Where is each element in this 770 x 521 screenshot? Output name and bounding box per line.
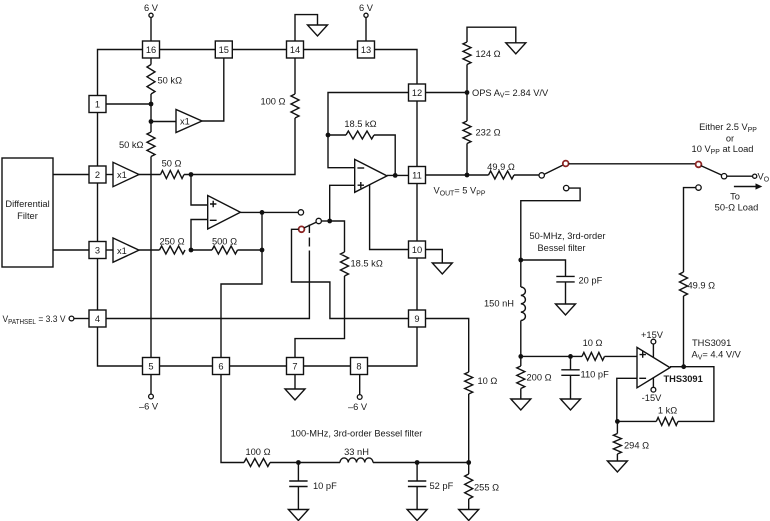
label THS3091 (inside) <box>664 374 703 384</box>
svg-text:VOUT= 5 VPP: VOUT= 5 VPP <box>434 186 486 198</box>
resistor 100 Ohm (filter) <box>244 459 270 467</box>
wire pin3 to pin2 <box>97 183 99 242</box>
wire pin4 to pin3 <box>97 259 99 311</box>
wire pin12 to divider node <box>426 92 468 94</box>
resistor 10 Ohm (50MHz) <box>582 352 605 360</box>
wire 50k to node chain down to pin 5 <box>150 94 152 358</box>
svg-text:1: 1 <box>95 99 100 109</box>
wire buffer2 output to 50 ohm <box>139 174 161 176</box>
label x1 (bottom buffer) <box>117 246 127 256</box>
pin 15 box <box>215 41 232 58</box>
junction 18.5k feedback node <box>326 133 331 138</box>
wire 124 ohm to ground <box>467 27 516 43</box>
junction filter node 1 <box>296 460 301 465</box>
resistor 294 Ohm <box>613 421 621 461</box>
label 1 kOhm <box>658 406 677 416</box>
wire ring top-left corner to pin 1 <box>98 50 143 96</box>
label OPS gain <box>472 88 549 100</box>
label VO <box>758 172 770 184</box>
svg-text:Differential: Differential <box>5 199 49 209</box>
op-amp buffer x1 (top) <box>176 110 202 133</box>
label To <box>730 192 740 202</box>
svg-text:100 Ω: 100 Ω <box>245 447 270 457</box>
wire pin7 to ground <box>294 375 296 390</box>
terminal VO <box>753 174 757 178</box>
wire 52pF to ground <box>416 487 418 510</box>
wire opamp2 output to pin 11 <box>387 174 409 176</box>
wire pin2 to buffer2 <box>106 174 113 176</box>
resistor 49.9 Ohm (series) <box>489 171 515 179</box>
svg-text:VO: VO <box>758 172 770 184</box>
junction feedback node <box>615 419 620 424</box>
pin 16 box <box>143 41 160 58</box>
label Either line2 <box>726 134 734 144</box>
wire 110pF to ground <box>570 375 572 399</box>
svg-text:18.5 kΩ: 18.5 kΩ <box>344 119 376 129</box>
label -6 V (pin5) <box>139 402 159 412</box>
label 250 Ohm <box>159 237 184 247</box>
wire node A to 20pF <box>521 260 566 276</box>
wire filter to pin 2 <box>53 174 89 176</box>
wire pin3 to buffer3 <box>106 249 113 251</box>
wire node to buffer1 input <box>151 121 176 123</box>
pin 9 box <box>409 310 426 327</box>
label THS3091 (title) <box>692 338 731 348</box>
switch S2 pole <box>539 173 544 178</box>
wire 50ohm node to 100ohm/pin14 <box>184 58 295 175</box>
junction VOUT node <box>465 173 470 178</box>
label -15V <box>642 393 662 403</box>
op-amp buffer x1 (middle) <box>113 162 139 186</box>
wire node B to node C <box>521 355 582 357</box>
resistor 255 Ohm <box>465 463 473 510</box>
wire 6V supply to pin 16 <box>150 18 152 42</box>
wire 18.5k to opamp2 output <box>374 135 395 175</box>
svg-text:THS3091: THS3091 <box>692 338 731 348</box>
resistor 500 Ohm <box>212 246 238 254</box>
svg-text:Filter: Filter <box>17 211 38 221</box>
svg-text:200 Ω: 200 Ω <box>527 373 552 383</box>
svg-text:To: To <box>730 192 740 202</box>
wire node to opamp1 - input <box>191 220 208 251</box>
terminal 6V (right) <box>364 13 368 17</box>
svg-text:9: 9 <box>414 314 419 324</box>
op-amp THS3091 <box>637 347 670 387</box>
switch S3 pole <box>721 174 726 179</box>
wire 10 ohm to THS + input <box>605 355 638 357</box>
resistor 100 Ohm (pin14) <box>291 94 299 118</box>
resistor 1 kOhm <box>656 417 678 425</box>
label +15V <box>641 330 664 340</box>
svg-text:Either 2.5 VPP: Either 2.5 VPP <box>699 122 757 134</box>
wire pin14 to pin13 <box>304 49 358 51</box>
wire node to opamp1 + input <box>191 175 208 206</box>
svg-text:–6 V: –6 V <box>348 402 368 412</box>
pin 6 box <box>213 358 230 375</box>
svg-text:15: 15 <box>219 45 229 55</box>
svg-text:12: 12 <box>412 88 422 98</box>
pin 4 box <box>89 310 106 327</box>
wire node to 500 ohm <box>191 249 212 251</box>
wire pin9 to pin8 corner <box>368 327 418 366</box>
svg-text:16: 16 <box>146 45 156 55</box>
svg-text:7: 7 <box>292 361 297 371</box>
wire S1 common to node <box>322 220 330 222</box>
svg-text:x1: x1 <box>180 117 190 127</box>
wire pin5 to -6V <box>150 375 152 395</box>
wire pin10 to pin9 <box>416 258 418 310</box>
terminal V_PATHSEL <box>69 316 74 321</box>
label 110 pF <box>581 370 610 380</box>
wire pin8 to pin7 <box>304 365 351 367</box>
svg-text:or: or <box>726 134 734 144</box>
switch S3 throw A (selected) <box>696 162 702 168</box>
resistor 18.5 kOhm (vertical) <box>341 252 349 276</box>
label 49.9 Ohm (series) <box>487 162 515 172</box>
op-amp U2 (OPS) <box>355 159 387 192</box>
wire pin12 to 18.5k node and - input <box>328 93 409 168</box>
inductor 33 nH <box>340 458 373 463</box>
wire pin14 to top ground <box>295 15 318 41</box>
wire S1 node to opamp2 + input <box>330 185 355 221</box>
label Either line1 <box>699 122 757 134</box>
label 200 Ohm <box>527 373 552 383</box>
svg-text:50 kΩ: 50 kΩ <box>119 140 144 150</box>
label 50 kOhm (lower) <box>119 140 144 150</box>
ground (294 Ohm) <box>607 461 627 472</box>
wire S1 throw B to pin 9 <box>292 229 409 318</box>
wire node C to 110pF <box>570 356 572 369</box>
pin 8 box <box>351 358 368 375</box>
svg-text:2: 2 <box>95 170 100 180</box>
svg-text:10 pF: 10 pF <box>313 481 337 491</box>
switch S1 common <box>316 218 321 223</box>
wire pin16 to pin15 <box>160 49 216 51</box>
wire V_PATHSEL to pin 4 <box>74 318 89 320</box>
wire pin13 to pin12 corner <box>375 50 418 85</box>
svg-text:500 Ω: 500 Ω <box>212 237 237 247</box>
wire pin4 row to S1 link <box>106 251 309 319</box>
svg-text:–6 V: –6 V <box>139 402 159 412</box>
junction 50ohm output node <box>189 172 194 177</box>
svg-text:6 V: 6 V <box>359 3 374 13</box>
wire 6V supply to pin 13 <box>365 18 367 42</box>
svg-text:250 Ω: 250 Ω <box>159 237 184 247</box>
label 20 pF <box>579 276 603 286</box>
wire pin7 to pin6 <box>230 365 287 367</box>
switch S1 throw A <box>298 210 303 215</box>
pin 3 box <box>89 242 106 259</box>
wire 18.5k to pin 7 <box>295 276 345 358</box>
wire filter node2 to node3 <box>373 462 469 464</box>
junction S1 common node <box>327 219 332 224</box>
svg-text:50 kΩ: 50 kΩ <box>158 76 183 86</box>
label 18.5 kOhm (feedback) <box>344 119 376 129</box>
resistor 50 kOhm (lower) <box>147 132 155 156</box>
wire S1 node to 18.5k (vertical) <box>330 221 345 252</box>
label THS3091 gain <box>692 350 742 362</box>
wire pin9 to 10 ohm <box>426 319 469 373</box>
label 255 Ohm <box>474 483 499 493</box>
svg-text:OPS AV= 2.84 V/V: OPS AV= 2.84 V/V <box>472 88 549 100</box>
junction pin1/50k node <box>149 102 154 107</box>
switch S3 throw B <box>696 185 701 190</box>
op-amp buffer x1 (bottom) <box>113 238 139 262</box>
svg-text:100-MHz, 3rd-order Bessel filt: 100-MHz, 3rd-order Bessel filter <box>291 429 423 439</box>
svg-text:49.9 Ω: 49.9 Ω <box>688 281 716 291</box>
wire THS output node <box>670 366 684 368</box>
switch S3 blade <box>701 166 721 175</box>
svg-text:10 VPP at Load: 10 VPP at Load <box>692 144 754 156</box>
wire pin12 to pin11 <box>416 101 418 167</box>
switch S2 throw A (selected) <box>563 161 569 167</box>
junction filter node 2 <box>415 460 420 465</box>
wire pin6 to filter input <box>221 375 244 463</box>
wire pin10 to ground <box>426 250 443 264</box>
svg-text:10 Ω: 10 Ω <box>478 376 498 386</box>
svg-text:294 Ω: 294 Ω <box>624 441 649 451</box>
capacitor 52 pF <box>408 481 426 487</box>
terminal -6V (pin8) <box>357 395 362 400</box>
terminal -15V <box>651 387 656 392</box>
svg-text:6: 6 <box>218 361 223 371</box>
svg-text:THS3091: THS3091 <box>664 374 703 384</box>
label 124 Ohm <box>476 49 501 59</box>
junction 50MHz node C <box>568 354 573 359</box>
wire pin11 to VOUT node <box>426 174 489 176</box>
wire S2 throw A to S3 throw A <box>569 163 696 165</box>
label 50MHz filter title line1 <box>530 231 606 241</box>
svg-text:4: 4 <box>95 314 100 324</box>
junction buffer1 input tap <box>149 119 154 124</box>
svg-text:18.5 kΩ: 18.5 kΩ <box>351 259 383 269</box>
wire buffer1 output to pin 15 <box>202 58 224 121</box>
pin 5 box <box>143 358 160 375</box>
wire pin11 to pin10 <box>416 184 418 242</box>
wire 49.9 top to S3 throw B <box>684 188 696 272</box>
label 10 Ohm (vertical) <box>478 376 498 386</box>
wire 500 ohm to feedback node <box>238 249 263 251</box>
wire THS output to 1k <box>678 367 714 422</box>
label 100 Ohm (pin14) <box>260 97 285 107</box>
svg-text:6 V: 6 V <box>144 3 159 13</box>
label V_PATHSEL <box>3 314 67 326</box>
svg-text:232 Ω: 232 Ω <box>476 128 501 138</box>
svg-text:5: 5 <box>148 361 153 371</box>
switch S1 blade <box>304 222 316 228</box>
svg-text:100 Ω: 100 Ω <box>260 97 285 107</box>
resistor 50 Ohm <box>161 171 185 179</box>
label 18.5 kOhm (vertical) <box>351 259 383 269</box>
wire node to 18.5k top <box>328 134 346 136</box>
wire buffer3 output to 250 ohm <box>139 249 160 251</box>
wire node1 to 10pF <box>297 463 299 482</box>
svg-text:33 nH: 33 nH <box>344 447 369 457</box>
label 50MHz filter title line2 <box>537 243 585 253</box>
wire opamp1 output down to pin 6 <box>221 212 262 357</box>
label 49.9 Ohm (vertical) <box>688 281 716 291</box>
terminal -6V (pin5) <box>149 394 154 399</box>
label Either line3 <box>692 144 754 156</box>
junction opamp2 output <box>393 173 398 178</box>
svg-text:255 Ω: 255 Ω <box>474 483 499 493</box>
ground (top, near pin 14) <box>308 25 328 36</box>
inductor 150 nH <box>521 287 526 321</box>
wire 1k to feedback node <box>617 420 656 422</box>
wire THS - input to feedback <box>617 378 637 421</box>
label 500 Ohm <box>212 237 237 247</box>
resistor 200 Ohm <box>517 356 525 399</box>
wire opamp2 Vocm to pin 10 <box>370 185 409 250</box>
wire +15V to THS3091 <box>652 344 654 357</box>
svg-text:11: 11 <box>412 170 422 180</box>
svg-text:3: 3 <box>95 245 100 255</box>
capacitor 10 pF <box>289 481 307 487</box>
wire 49.9 to switch S2 <box>514 174 539 176</box>
wire 150nH to node B <box>520 321 522 357</box>
svg-text:150 nH: 150 nH <box>484 299 514 309</box>
wire 10pF to ground <box>297 487 299 510</box>
label -6 V (pin8) <box>348 402 368 412</box>
svg-text:52 pF: 52 pF <box>430 481 454 491</box>
label 10 pF <box>313 481 337 491</box>
wire pin2 to pin1 <box>97 113 99 167</box>
junction 250/500 node <box>189 248 194 253</box>
ground (255 Ohm) <box>459 510 479 521</box>
label 100MHz filter title <box>291 429 423 439</box>
label 50 kOhm (upper) <box>158 76 183 86</box>
label 6 V (right) <box>359 3 374 13</box>
junction THS output <box>681 364 686 369</box>
label 150 nH <box>484 299 514 309</box>
svg-text:Bessel filter: Bessel filter <box>537 243 585 253</box>
label 50-Ohm Load <box>715 203 759 213</box>
pin 11 box <box>409 167 426 184</box>
svg-text:13: 13 <box>361 45 371 55</box>
terminal +15V <box>651 339 656 344</box>
svg-text:50-MHz, 3rd-order: 50-MHz, 3rd-order <box>530 231 606 241</box>
pin 14 box <box>287 41 304 58</box>
wire pin15 to pin14 <box>232 49 286 51</box>
wire pin16 to 50k resistor <box>150 58 152 65</box>
label VOUT <box>434 186 486 198</box>
wire filter to pin 3 <box>53 249 89 251</box>
switch S1 throw B (selected) <box>299 226 305 232</box>
ground (10 pF) <box>288 510 308 521</box>
label 33 nH <box>344 447 369 457</box>
resistor 49.9 Ohm (vertical) <box>680 272 688 367</box>
arrow to load <box>734 183 762 189</box>
ground (124 Ohm) <box>506 43 526 54</box>
resistor 124 Ohm <box>463 42 471 93</box>
junction opamp1 output <box>260 210 265 215</box>
svg-text:50 Ω: 50 Ω <box>162 159 182 169</box>
label x1 (middle buffer) <box>117 170 127 180</box>
pin 12 box <box>409 84 426 101</box>
resistor 10 Ohm (vertical) <box>465 372 473 463</box>
resistor 50 kOhm (upper) <box>147 65 155 94</box>
wire 20pF to ground <box>565 282 567 304</box>
svg-text:VPATHSEL = 3.3 V: VPATHSEL = 3.3 V <box>3 314 67 326</box>
ground (200 Ohm) <box>511 399 531 410</box>
svg-text:124 Ω: 124 Ω <box>476 49 501 59</box>
wire opamp1 output to switch S1 <box>240 211 298 213</box>
ground (52 pF) <box>407 510 427 521</box>
svg-text:x1: x1 <box>117 246 127 256</box>
wire S2 throw B to 50MHz filter <box>521 188 580 260</box>
wire pin6 to pin5 <box>160 365 213 367</box>
label x1 (top buffer) <box>180 117 190 127</box>
switch S2 throw B <box>564 185 569 190</box>
junction divider node <box>465 90 470 95</box>
svg-text:-15V: -15V <box>642 393 662 403</box>
svg-text:10 Ω: 10 Ω <box>583 338 603 348</box>
label 50 Ohm <box>162 159 182 169</box>
junction 50MHz node A <box>518 258 523 263</box>
label 52 pF <box>430 481 454 491</box>
junction filter node 3 <box>466 460 471 465</box>
junction 50MHz node B <box>518 354 523 359</box>
label 100 Ohm (filter) <box>245 447 270 457</box>
label 6 V (left) <box>144 3 159 13</box>
label 294 Ohm <box>624 441 649 451</box>
svg-text:AV= 4.4 V/V: AV= 4.4 V/V <box>692 350 742 362</box>
svg-text:110 pF: 110 pF <box>581 370 610 380</box>
wire node2 to 52pF <box>416 463 418 482</box>
ground (pin 7) <box>285 389 305 400</box>
svg-text:20 pF: 20 pF <box>579 276 603 286</box>
capacitor 20 pF <box>556 276 574 282</box>
svg-text:50-Ω Load: 50-Ω Load <box>715 203 759 213</box>
ground (20 pF) <box>556 304 576 315</box>
wire S3 pole to VO <box>727 175 752 177</box>
svg-text:1 kΩ: 1 kΩ <box>658 406 677 416</box>
resistor 18.5 kOhm (feedback) <box>346 131 374 139</box>
resistor 232 Ohm <box>463 93 471 176</box>
pin 13 box <box>358 41 375 58</box>
svg-text:+15V: +15V <box>641 330 664 340</box>
switch S2 blade <box>544 165 563 174</box>
wire node A to 150nH <box>520 260 522 287</box>
pin 7 box <box>287 358 304 375</box>
ground (pin 10) <box>432 263 452 274</box>
wire pin1 to node <box>106 103 151 105</box>
svg-text:14: 14 <box>290 45 300 55</box>
pin 10 box <box>409 241 426 258</box>
junction feedback/500 node <box>260 248 265 253</box>
wire pin5 to pin4 corner <box>98 327 143 366</box>
pin 1 box <box>89 96 106 113</box>
label 232 Ohm <box>476 128 501 138</box>
svg-text:x1: x1 <box>117 170 127 180</box>
op-amp U1 <box>208 196 241 230</box>
differential filter box <box>2 158 53 267</box>
switch S1 gang link (dashed) <box>308 225 310 247</box>
wire filter node1 span <box>270 462 340 464</box>
ground (110 pF) <box>561 399 581 410</box>
label 10 Ohm (50MHz) <box>583 338 603 348</box>
terminal 6V (left) <box>149 13 153 17</box>
pin 2 box <box>89 166 106 183</box>
capacitor 110 pF <box>561 370 579 376</box>
wire pin8 to -6V <box>359 375 361 395</box>
svg-text:10: 10 <box>412 245 422 255</box>
svg-text:49.9 Ω: 49.9 Ω <box>487 162 515 172</box>
resistor 250 Ohm <box>160 246 186 254</box>
svg-text:8: 8 <box>356 361 361 371</box>
wire -15V to THS3091 <box>652 377 654 387</box>
